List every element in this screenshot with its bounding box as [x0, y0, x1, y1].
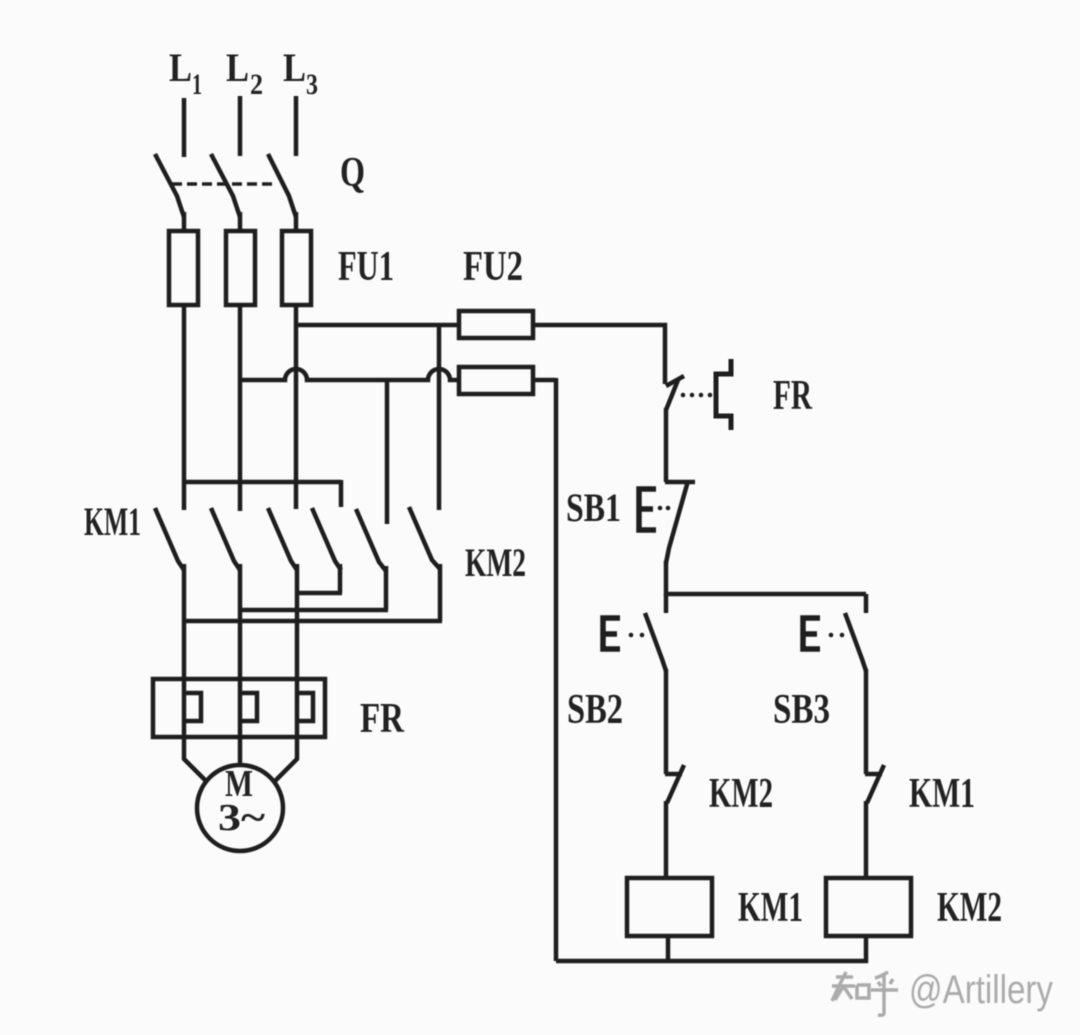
phase label L3: [283, 45, 318, 101]
label KM2 interlock: [709, 771, 773, 817]
svg-text:L: L: [283, 45, 306, 90]
wire KM1 top bus: [184, 480, 341, 485]
fuse FU1 pole 2: [226, 231, 255, 305]
wire KM2 pole 1 feed stub: [339, 480, 344, 507]
wire SB1 to branch rail: [664, 561, 669, 596]
wire L2 incoming lead: [238, 96, 243, 156]
wire phase A vertical: [182, 305, 187, 510]
wire Q pole 3 to fuse: [294, 212, 299, 233]
contactor KM2 interlock NC blade: [667, 765, 684, 803]
label KM1 main: [84, 499, 141, 544]
fuse FU2 lower: [459, 367, 533, 394]
label KM1 coil: [738, 885, 803, 931]
wire crossover U phase: [184, 619, 442, 624]
svg-text:KM2: KM2: [709, 771, 773, 817]
label FR main: [360, 696, 405, 742]
wire branch rail: [666, 592, 866, 597]
fuse FU1 pole 3: [282, 231, 311, 305]
watermark 知乎 @Artillery: [832, 972, 898, 1015]
coil KM2: [826, 878, 911, 936]
svg-text:Q: Q: [340, 150, 365, 196]
svg-text:@Artillery: @Artillery: [909, 968, 1053, 1012]
SB2 linkage dots: [629, 633, 645, 638]
phase label L2: [226, 45, 263, 101]
switch Q linkage (dashed): [172, 182, 277, 186]
contactor KM2 main contact 3 blade: [409, 507, 440, 569]
contactor KM1 main contact 3 blade: [268, 508, 297, 570]
motor label M: [225, 763, 253, 805]
pushbutton SB2 actuator E: [603, 618, 620, 649]
svg-text:KM2: KM2: [465, 540, 526, 585]
FR heater element 2: [241, 693, 257, 721]
contactor KM1 main contact 2 blade: [211, 508, 240, 570]
fuse FU2 upper: [459, 311, 533, 338]
svg-text:KM2: KM2: [937, 885, 1002, 931]
wire coil KM2 to bottom rail: [864, 936, 869, 963]
wire SB2 top stub: [664, 594, 669, 613]
wire crossover W phase: [297, 591, 342, 596]
wire FU2 lower to left control rail: [533, 378, 556, 383]
coil KM1: [627, 878, 712, 936]
label KM1 interlock: [909, 771, 975, 817]
motor label 3~: [218, 797, 265, 839]
wire phase C vertical: [294, 305, 299, 509]
SB3 linkage dots: [829, 633, 845, 638]
svg-text:KM1: KM1: [84, 499, 141, 544]
switch Q pole 3 blade: [268, 154, 296, 217]
svg-text:SB1: SB1: [566, 485, 621, 530]
wire FR contact to SB1: [664, 408, 669, 482]
wire motor lead U: [184, 564, 207, 782]
label SB2: [567, 687, 623, 733]
wire SB3 to KM1 interlock: [864, 669, 869, 774]
svg-text:L: L: [226, 45, 249, 90]
SB1 linkage dots: [658, 506, 671, 511]
wire tap phase B to FU2 lower (hops over C and pole3 feed): [240, 369, 459, 380]
svg-text:KM1: KM1: [909, 771, 975, 817]
FR heater element 1: [185, 693, 201, 721]
wire motor lead W: [274, 564, 297, 782]
svg-text:3: 3: [306, 68, 318, 101]
wire KM1 interlock to coil KM2: [864, 801, 869, 878]
pushbutton SB1 actuator E: [639, 489, 656, 530]
svg-text:2: 2: [250, 68, 263, 101]
wire left control rail down: [554, 378, 559, 961]
wire KM2 pole 3 lower lead: [438, 564, 443, 621]
switch Q pole 2 blade: [211, 154, 240, 217]
label SB3: [773, 687, 830, 733]
wire bottom rail: [556, 959, 868, 964]
wire motor lead V: [238, 564, 243, 766]
svg-text:L: L: [169, 45, 192, 90]
switch Q pole 1 blade: [155, 154, 184, 217]
wire crossover V phase: [240, 608, 388, 613]
label SB1: [566, 485, 621, 530]
pushbutton SB1 NC blade: [666, 481, 688, 563]
contactor KM2 main contact 1 blade: [312, 508, 341, 570]
wire control circuit drop: [663, 323, 668, 384]
svg-text:1: 1: [192, 68, 202, 101]
label FR control: [773, 373, 812, 419]
svg-text:FU2: FU2: [463, 244, 523, 290]
pushbutton SB1 fixed bar: [665, 480, 695, 485]
label FU2: [463, 244, 523, 290]
wire coil KM1 to bottom rail: [666, 936, 671, 961]
fuse FU1 pole 1: [169, 231, 198, 305]
svg-text:KM1: KM1: [738, 885, 803, 931]
wire phase B vertical: [238, 305, 243, 511]
svg-text:3~: 3~: [218, 797, 265, 839]
wire SB3 top stub: [864, 594, 869, 613]
wire KM2 interlock to coil KM1: [664, 801, 669, 878]
thermal relay FR heater box: [153, 679, 325, 737]
contactor KM2 interlock NC bar: [665, 772, 682, 777]
thermal relay FR NC contact blade: [666, 380, 678, 410]
FR contact linkage dots: [681, 393, 713, 398]
thermal relay FR NC contact tick: [666, 376, 684, 386]
contactor KM1 main contact 1 blade: [155, 508, 184, 570]
contactor KM1 interlock NC bar: [865, 772, 882, 777]
contactor KM2 main contact 2 blade: [356, 509, 386, 571]
FR heater element 3: [297, 693, 313, 721]
svg-text:FU1: FU1: [338, 244, 394, 290]
svg-text:FR: FR: [773, 373, 812, 419]
pushbutton SB2 NO blade: [645, 613, 666, 671]
wire KM2 pole 2 feed: [385, 380, 390, 524]
switch Q label: [340, 150, 365, 196]
wire KM2 pole 3 feed: [437, 325, 442, 510]
wire Q pole 2 to fuse: [238, 212, 243, 233]
wire tap phase C to FU2 upper: [296, 323, 459, 328]
pushbutton SB3 NO blade: [845, 613, 866, 671]
svg-text:FR: FR: [360, 696, 405, 742]
label FU1: [338, 244, 394, 290]
phase label L1: [169, 45, 202, 101]
contactor KM1 interlock NC blade: [867, 765, 884, 803]
motor M circle: [197, 765, 283, 851]
svg-text:SB3: SB3: [773, 687, 830, 733]
wire SB2 to KM2 interlock: [664, 669, 669, 774]
wire L3 incoming lead: [294, 96, 299, 156]
wire KM2 pole 2 lower lead: [384, 566, 389, 610]
label KM2 main: [465, 540, 526, 585]
svg-text:SB2: SB2: [567, 687, 623, 733]
wire L1 incoming lead: [182, 98, 187, 157]
thermal relay FR trip element symbol: [716, 359, 731, 430]
label KM2 coil: [937, 885, 1002, 931]
wire FU2 upper to control circuit: [533, 323, 667, 328]
wire Q pole 1 to fuse: [182, 212, 187, 233]
pushbutton SB3 actuator E: [803, 618, 820, 649]
wire KM2 pole 1 lower lead: [338, 564, 343, 593]
